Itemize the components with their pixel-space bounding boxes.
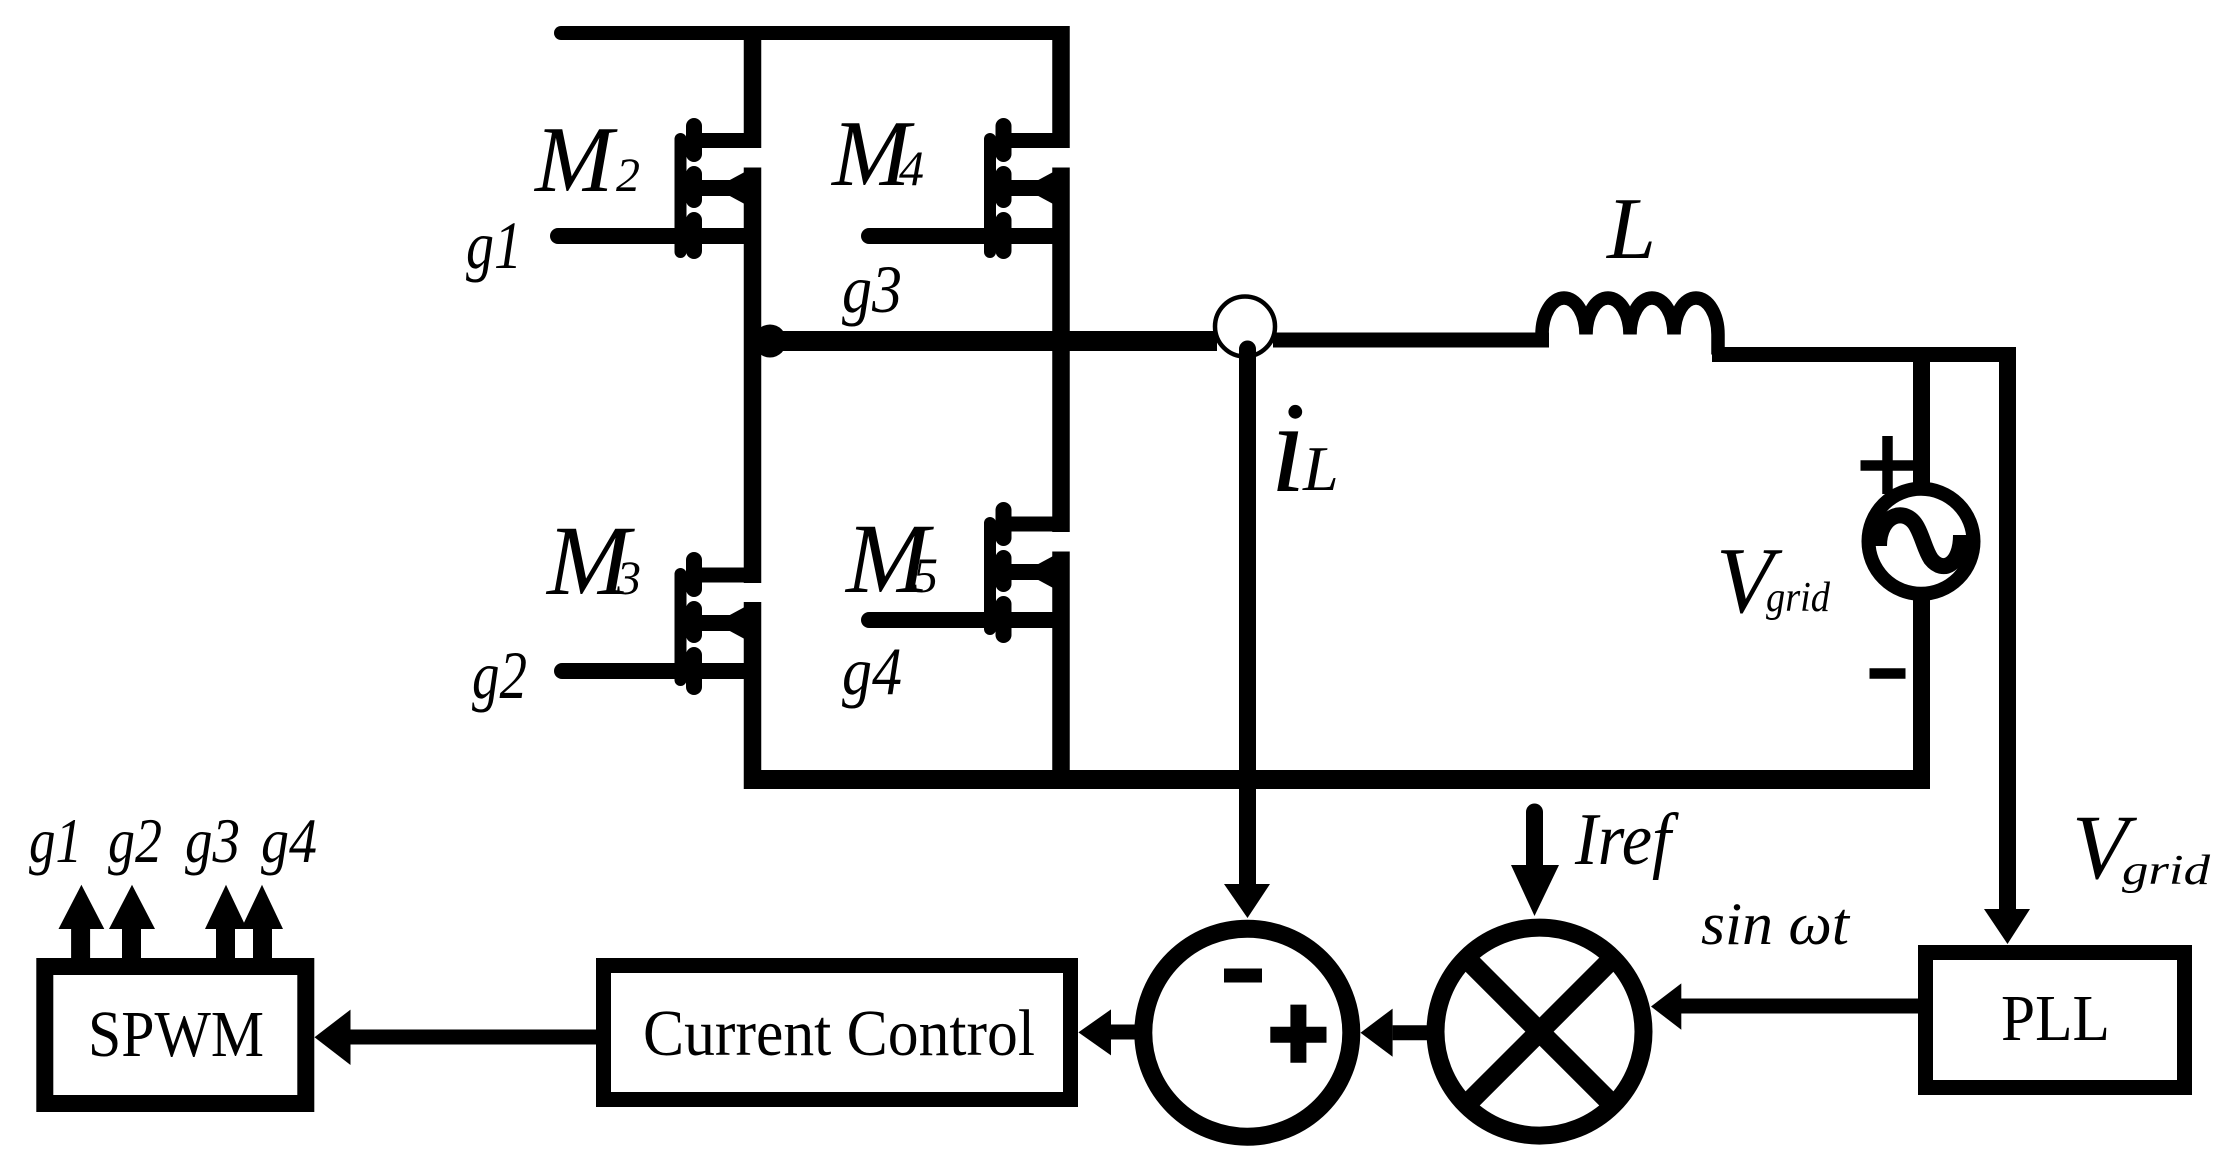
arrow g4 out of SPWM <box>241 885 283 968</box>
plus sign in summer <box>1270 1005 1326 1063</box>
transistor M2 <box>681 126 760 252</box>
wire: gate lead g1 <box>558 228 686 244</box>
svg-text:4: 4 <box>899 140 924 196</box>
transistor M5 <box>990 510 1067 635</box>
wire: drop to Vgrid source <box>1913 362 1930 484</box>
arrow g1 out of SPWM <box>59 885 105 968</box>
wire: output node rail (left of current sensor) <box>752 331 1217 351</box>
svg-text:grid: grid <box>2122 848 2211 894</box>
svg-text:i: i <box>1270 376 1306 520</box>
wire: bottom rail <box>744 770 1930 789</box>
wire: gate lead g4 <box>869 612 995 628</box>
svg-text:L: L <box>1302 433 1339 504</box>
inductor L <box>1542 298 1718 335</box>
svg-text:g3: g3 <box>185 805 240 876</box>
wire: xA lower segment (M3 source to bottom rail) <box>744 602 762 789</box>
wire: iL measurement drop <box>1239 349 1256 886</box>
wire: gate lead g2 <box>562 663 686 679</box>
wire: xB middle segment (M4 source to M5 drain) <box>1052 168 1070 533</box>
svg-text:3: 3 <box>616 552 641 605</box>
wire: summer to Current Control <box>1111 1025 1140 1040</box>
wire: Vgrid sense drop to PLL <box>1999 347 2016 910</box>
arrowhead: iL into summer <box>1224 884 1270 918</box>
wire: output rail (sensor to inductor) <box>1273 333 1549 348</box>
transistor M4 <box>990 126 1067 252</box>
junction dot at output node <box>754 325 787 358</box>
svg-text:g1: g1 <box>466 207 522 283</box>
wire: gate lead g3 <box>869 228 995 244</box>
minus sign in summer <box>1224 969 1262 983</box>
wire: xB riser top (M4 drain to top rail) <box>1052 26 1070 148</box>
wire: inductor right step <box>1711 335 1725 355</box>
arrow g3 out of SPWM <box>205 885 247 968</box>
multiplier X stroke 2 <box>1466 958 1614 1106</box>
wire: xB lower segment (M5 source to bottom rail) <box>1052 552 1070 790</box>
svg-text:M: M <box>533 108 618 212</box>
summer circle <box>1143 929 1351 1137</box>
svg-text:sin ωt: sin ωt <box>1701 891 1850 957</box>
minus sign at Vgrid source <box>1870 668 1906 679</box>
svg-text:5: 5 <box>913 547 938 603</box>
svg-text:L: L <box>1605 181 1656 278</box>
wire: xA middle segment (M2 source to M3 drain, through output node) <box>744 168 762 584</box>
wire: xA riser top (M2 drain to top rail) <box>744 26 762 148</box>
Vgrid AC source circle <box>1869 489 1974 594</box>
svg-text:g4: g4 <box>261 805 317 876</box>
transistor M3 <box>681 560 760 687</box>
arrowhead into Current Control <box>1078 1009 1111 1055</box>
wire: source bottom lead <box>1913 598 1930 789</box>
svg-text:g3: g3 <box>842 251 902 327</box>
svg-text:PLL: PLL <box>2001 982 2110 1055</box>
multiplier circle <box>1436 928 1644 1136</box>
wire: multiplier to summer <box>1393 1025 1430 1040</box>
sine wave inside source <box>1879 515 1961 566</box>
wire: Current Control to SPWM <box>350 1030 600 1045</box>
arrow Iref into multiplier <box>1511 812 1559 916</box>
plus sign at Vgrid source <box>1861 436 1919 494</box>
current sensor circle <box>1215 297 1275 357</box>
wire: PLL to multiplier <box>1681 999 1922 1014</box>
multiplier X stroke 1 <box>1466 958 1614 1106</box>
arrowhead into multiplier <box>1651 983 1681 1029</box>
svg-text:g4: g4 <box>842 633 902 709</box>
svg-text:SPWM: SPWM <box>88 998 264 1071</box>
arrow g2 out of SPWM <box>109 885 155 968</box>
svg-text:g1: g1 <box>29 805 82 876</box>
arrowhead into SPWM <box>315 1010 351 1065</box>
svg-text:Current Control: Current Control <box>643 997 1035 1070</box>
Current Control block <box>604 966 1071 1100</box>
svg-text:g2: g2 <box>108 805 162 876</box>
SPWM block <box>45 967 306 1104</box>
svg-text:Iref: Iref <box>1574 799 1680 881</box>
PLL block <box>1926 953 2185 1088</box>
svg-text:2: 2 <box>616 149 640 202</box>
wire: rail from inductor to right corner <box>1712 347 2016 362</box>
arrowhead into summer <box>1361 1009 1393 1057</box>
arrowhead: Vgrid into PLL <box>1984 909 2030 944</box>
svg-text:g2: g2 <box>472 637 527 713</box>
wire: top DC rail <box>561 26 1061 40</box>
svg-text:grid: grid <box>1766 575 1831 621</box>
